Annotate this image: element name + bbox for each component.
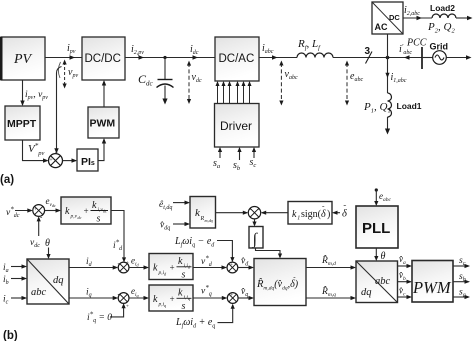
wire PI_d to sum2_d (v*_d) — [193, 265, 227, 269]
abc to dq transform box — [27, 259, 69, 304]
DC bus wire DC/DC to DC/AC — [125, 55, 215, 59]
svg-text:k: k — [92, 200, 97, 211]
wire sum2_d to R-hat box (v-hat_d) — [238, 265, 254, 269]
summing junction b1 (dc voltage) — [33, 205, 45, 221]
PWM block (a) — [88, 107, 119, 138]
svg-text:PWM: PWM — [412, 278, 452, 297]
svg-text:+: + — [126, 304, 130, 310]
svg-text:AC: AC — [375, 22, 388, 32]
svg-text:k: k — [153, 294, 158, 305]
svg-text:+: + — [169, 294, 175, 304]
wire k_R box to sum_b — [216, 211, 249, 215]
svg-text:+: + — [230, 262, 234, 268]
wire v-hat to k_R box — [173, 222, 190, 226]
output s_c — [453, 256, 470, 268]
node: PCC junction — [386, 56, 390, 60]
PI block d-axis: k_p,id + k_i,id/s — [149, 254, 193, 281]
wire grid out — [446, 55, 471, 59]
current arrow i'_abc (toward PCC) — [404, 55, 410, 59]
input i_b — [3, 275, 27, 286]
svg-text:q: q — [164, 303, 166, 308]
AC/DC converter block (Load2) — [372, 2, 403, 34]
wire summing junction to PIs — [63, 158, 78, 162]
svg-text:dq: dq — [53, 275, 64, 286]
sign block k_1 sign(delta-tilde) — [288, 202, 332, 225]
wire v-hat_c to PWM — [398, 295, 413, 299]
wire R-hat_m,d to dq/abc box — [306, 265, 356, 269]
wire sum_q to PI_q box — [129, 296, 149, 300]
wire sum1 to PI box — [45, 208, 61, 212]
wire sum2_q to R-hat box (v-hat_q) — [238, 296, 254, 300]
grid AC source symbol — [433, 51, 447, 65]
output s_b — [453, 272, 470, 284]
svg-text:s: s — [182, 301, 186, 312]
wire sum_b to integrator — [252, 219, 256, 227]
wire R-hat_m,q to dq/abc box — [306, 296, 356, 300]
svg-text:DC/AC: DC/AC — [219, 53, 255, 65]
switching signal inputs s_a s_b s_c — [218, 147, 256, 160]
node: capacitor tap — [163, 56, 166, 59]
svg-text:abc: abc — [31, 287, 47, 298]
svg-text:P1, Q1: P1, Q1 — [363, 101, 391, 115]
svg-text:k: k — [178, 288, 183, 299]
svg-text:dc: dc — [103, 209, 107, 214]
wire PV to DC/DC — [45, 55, 82, 59]
wire v_pv feedback to summing junction — [57, 67, 62, 151]
wire k1 box to sum_b — [261, 211, 288, 215]
svg-text:Lfωid + eq: Lfωid + eq — [175, 317, 215, 330]
wire PLL theta to dq/abc box — [374, 248, 378, 261]
summing junction sum2_q — [227, 293, 238, 304]
Driver block — [215, 104, 260, 148]
svg-text:DC: DC — [389, 13, 400, 22]
virtual resistance block R-hat_m,dq(v-hat_dq, delta-hat) — [254, 259, 306, 306]
svg-text:DC/DC: DC/DC — [85, 53, 121, 65]
PCC bar — [421, 47, 423, 69]
wire integrator to R-hat box top — [256, 248, 283, 259]
DC/AC inverter block — [215, 37, 259, 81]
gain block k_Rm,dq — [190, 197, 216, 229]
capacitor C_dc — [157, 58, 174, 105]
summing junction sum_d — [118, 260, 130, 273]
wire PWM to DC/DC — [102, 80, 106, 107]
wire v-hat_a to PWM — [398, 264, 413, 268]
svg-text:+: + — [230, 293, 234, 299]
svg-text:+: + — [34, 207, 38, 213]
svg-text:s: s — [182, 270, 186, 281]
node: e_abc tap — [375, 188, 378, 191]
wire sum_d to PI_d box — [129, 265, 149, 269]
inductor Load2 — [432, 14, 456, 18]
ground arrow Load1 — [385, 117, 390, 135]
wire PCC down to Load1 — [385, 58, 389, 94]
MPPT block — [5, 106, 40, 140]
DC/DC converter block — [82, 37, 125, 80]
summing junction (a) — [49, 148, 63, 168]
svg-text:PV: PV — [13, 52, 33, 67]
AC output wire with i_abc — [259, 55, 297, 59]
svg-text:PLL: PLL — [362, 220, 390, 237]
svg-text:dc: dc — [78, 215, 82, 220]
inductor Load1 (vertical) — [388, 93, 392, 117]
wire v*_dc to sum1 — [15, 208, 33, 212]
svg-text:): ) — [327, 209, 330, 220]
svg-text:Driver: Driver — [220, 119, 252, 133]
svg-text:+: + — [126, 260, 130, 266]
svg-text:k: k — [292, 209, 297, 220]
svg-text:Lfωiq − ed: Lfωiq − ed — [174, 236, 215, 249]
gate drive wires Driver to DC/AC (6 arrows) — [216, 81, 252, 104]
voltage annotation v_dc — [187, 61, 191, 104]
voltage annotation v_abc — [279, 61, 283, 106]
wire i_d to sum_d — [69, 265, 118, 269]
v_dc feedback into sum1 — [37, 216, 41, 236]
wire theta into abc/dq box — [46, 248, 50, 260]
wire PI out to sum_d (i*_d) — [111, 211, 126, 263]
svg-text:PWM: PWM — [90, 118, 116, 130]
filter inductor R_f,L_f — [297, 53, 333, 58]
svg-text:Rf, Lf: Rf, Lf — [297, 38, 321, 52]
svg-text:k: k — [65, 206, 70, 217]
svg-text:θ: θ — [45, 238, 50, 249]
wire i_q to sum_q — [69, 296, 118, 300]
PI block q-axis: k_p,iq + k_i,iq/s — [149, 285, 193, 312]
wire PCC to grid source — [422, 57, 433, 59]
wire PIs to PWM — [98, 138, 106, 161]
wire Load2 out — [456, 16, 473, 20]
PLL block — [356, 206, 398, 248]
input delta-tilde into k1 box — [332, 211, 340, 215]
svg-text:PCC: PCC — [406, 38, 427, 49]
integrator block — [249, 227, 263, 250]
input i_c — [3, 295, 27, 306]
svg-text:+: + — [83, 206, 89, 216]
wire i*_q = 0 into sum_q — [110, 303, 126, 317]
svg-text:1: 1 — [297, 216, 300, 222]
svg-text:+: + — [49, 157, 53, 164]
wire MPPT to summing junction — [23, 140, 49, 163]
svg-text:dq: dq — [361, 287, 372, 298]
wire AC/DC to Load2 — [403, 16, 432, 20]
svg-text:sign(: sign( — [301, 209, 322, 220]
dq to abc transform box — [356, 261, 398, 303]
PI controller block PIs — [77, 149, 98, 171]
svg-text:abc: abc — [375, 276, 391, 287]
summing junction sum_q — [118, 290, 130, 310]
three-phase slash marker — [365, 46, 373, 64]
svg-text:Load2: Load2 — [430, 3, 455, 13]
svg-text:3: 3 — [365, 46, 371, 57]
svg-text:Load1: Load1 — [397, 101, 422, 111]
grid bus wire — [333, 57, 422, 59]
svg-text:MPPT: MPPT — [7, 118, 37, 130]
svg-text:+: + — [169, 263, 175, 273]
wire Lf*w*id + eq into sum2_q — [218, 304, 235, 323]
svg-text:(a): (a) — [0, 174, 14, 186]
PWM block (b) — [412, 261, 453, 303]
wire PV bottom to MPPT — [20, 80, 24, 106]
wire e-hat to k_R box — [173, 201, 190, 205]
wire v-hat_b to PWM — [398, 280, 413, 284]
PI block dc voltage: k_p,vdc + k_i,vdc/s — [61, 197, 111, 225]
svg-text:Grid: Grid — [430, 42, 449, 52]
wire Lf*w*iq - ed into sum2_d — [217, 241, 235, 263]
svg-text:k: k — [178, 256, 183, 267]
svg-text:(b): (b) — [3, 330, 18, 341]
svg-text:P2, Q2: P2, Q2 — [427, 21, 455, 35]
svg-text:p,v: p,v — [70, 214, 78, 220]
output s_a — [453, 288, 470, 300]
voltage annotation e_abc — [345, 61, 349, 106]
wire e_abc into PLL — [374, 190, 378, 206]
svg-text:k: k — [153, 263, 158, 274]
input i_a — [3, 263, 27, 274]
voltage annotation v_pv (dashed double arrow) — [58, 60, 66, 89]
wire AC/DC down to PCC — [387, 34, 389, 58]
PV array block — [1, 37, 45, 80]
summing junction sum_b (delta estimator) — [248, 205, 260, 219]
summing junction sum2_d — [227, 262, 238, 273]
wire PI_q to sum2_q (v*_q) — [193, 296, 227, 300]
svg-text:s: s — [97, 214, 101, 225]
